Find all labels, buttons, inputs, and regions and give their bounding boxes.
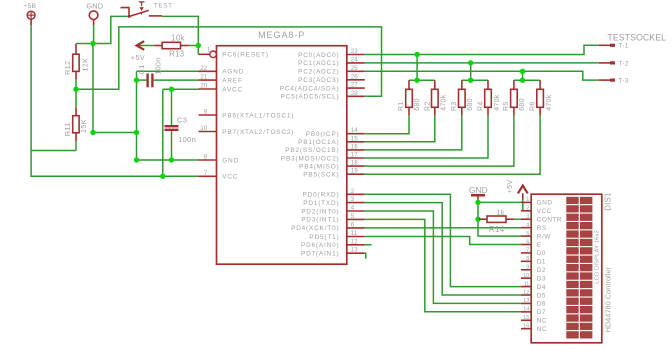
svg-text:8: 8: [204, 154, 208, 161]
pin 14 stub: [347, 133, 365, 135]
resistor R2 top lead: [434, 80, 436, 89]
wire R2 to pin 15: [365, 116, 435, 142]
pin 25 stub: [347, 70, 365, 72]
wire PC0 to T-1: [365, 45, 599, 54]
svg-text:+5V: +5V: [507, 180, 514, 194]
wire GND to LCD pin 1: [478, 201, 521, 203]
node ladder top 2: [468, 60, 473, 65]
svg-text:12K: 12K: [81, 58, 90, 72]
display pin 16 stub: [521, 328, 531, 330]
svg-text:20: 20: [200, 83, 207, 90]
svg-text:TESTSOCKEL: TESTSOCKEL: [607, 32, 666, 42]
svg-text:22: 22: [200, 65, 207, 72]
op-amp U1 MEGA8-P box: [217, 46, 347, 265]
wire R6 to pin 19: [365, 116, 540, 175]
svg-text:PC4(ADC4/SDA): PC4(ADC4/SDA): [280, 85, 340, 92]
svg-text:D0: D0: [537, 250, 546, 257]
svg-text:15: 15: [523, 315, 529, 321]
svg-text:R12: R12: [63, 61, 72, 75]
svg-text:470k: 470k: [441, 94, 448, 111]
wire divider tap to pin 28: [76, 27, 382, 96]
svg-text:7: 7: [204, 170, 208, 177]
wire R11 bottom to +5B line: [31, 150, 76, 152]
svg-text:9: 9: [204, 109, 208, 116]
svg-text:100n: 100n: [153, 57, 162, 74]
resistor R11 top lead: [75, 107, 77, 115]
display pin 13 stub: [521, 302, 531, 304]
wire AVCC pin 20: [163, 88, 199, 90]
svg-text:E: E: [537, 242, 542, 249]
resistor R1: [406, 89, 413, 107]
wire AVCC to VCC vertical: [162, 89, 164, 176]
node ladder bar 1: [414, 78, 419, 83]
svg-text:3: 3: [526, 214, 529, 220]
wire PD5 to E: [365, 237, 521, 245]
node divider tap: [73, 87, 78, 92]
svg-text:14: 14: [351, 127, 358, 134]
svg-text:PD1(TXD): PD1(TXD): [303, 200, 339, 207]
resistor R13 right lead: [181, 45, 189, 47]
resistor R3: [459, 89, 466, 107]
svg-text:12: 12: [523, 290, 529, 296]
svg-text:470k: 470k: [494, 94, 501, 111]
wire +5B down and along bottom: [31, 25, 163, 176]
wire GND to R12 top: [76, 43, 93, 45]
pin 9 stub: [199, 114, 217, 116]
pin 15 stub: [347, 141, 365, 143]
svg-text:PD6(AIN0): PD6(AIN0): [301, 242, 340, 249]
svg-text:T-2: T-2: [619, 60, 629, 67]
resistor R5 bottom lead: [513, 107, 515, 115]
svg-text:26: 26: [351, 73, 358, 80]
svg-text:R13: R13: [169, 50, 184, 59]
svg-text:PD7(AIN1): PD7(AIN1): [301, 251, 340, 258]
svg-text:R14: R14: [489, 225, 505, 234]
connector pin T-1: [599, 44, 615, 46]
svg-text:DIS1: DIS1: [604, 192, 613, 211]
resistor R2 bottom lead: [434, 107, 436, 115]
resistor R14 left lead: [479, 218, 487, 220]
svg-text:12: 12: [351, 238, 358, 245]
wire +5V to LCD pin 2: [521, 200, 523, 211]
svg-text:R2: R2: [424, 101, 431, 111]
svg-text:2: 2: [526, 206, 529, 212]
wire GND column to R/W: [478, 200, 521, 237]
wire R14 to CONTR: [514, 218, 521, 220]
svg-text:AGND: AGND: [222, 69, 244, 76]
svg-text:PB5(SCK): PB5(SCK): [303, 172, 339, 179]
svg-text:D1: D1: [537, 259, 546, 266]
pin 6 stub: [347, 227, 365, 229]
resistor R1 bottom lead: [408, 107, 410, 115]
svg-text:PC1(ADC1): PC1(ADC1): [298, 60, 339, 67]
svg-text:PC2(ADC2): PC2(ADC2): [298, 69, 339, 76]
svg-text:PD5(T1): PD5(T1): [309, 234, 339, 241]
svg-text:27: 27: [351, 82, 358, 89]
svg-text:R/W: R/W: [537, 233, 551, 240]
svg-text:2: 2: [351, 188, 355, 195]
display pin 5 stub: [521, 235, 531, 237]
resistor R12 top lead: [75, 44, 77, 55]
pin 11 stub: [347, 236, 365, 238]
pin 17 stub: [347, 157, 365, 159]
pin 19 stub: [347, 173, 365, 175]
supply +5V arrow left: [137, 41, 145, 50]
wire ladder drop 2: [470, 63, 472, 80]
svg-text:100n: 100n: [178, 135, 196, 144]
svg-text:R3: R3: [451, 101, 458, 111]
resistor R14: [487, 216, 506, 222]
wire R5 to pin 18: [365, 116, 514, 167]
node AVCC VCC join: [160, 174, 165, 179]
wire switch right to R13 node: [162, 16, 198, 45]
svg-text:T-1: T-1: [619, 43, 629, 50]
pin 7 stub: [199, 175, 217, 177]
svg-text:19: 19: [351, 168, 358, 175]
svg-text:13: 13: [351, 247, 358, 254]
wire R11 bottom lead extension: [75, 141, 77, 150]
pin 1 PC6(RESET) with bubble: [198, 51, 216, 58]
node AGND column join: [134, 130, 139, 135]
display pin 10 stub: [521, 277, 531, 279]
wire C3 top: [171, 89, 173, 125]
svg-text:25: 25: [351, 65, 358, 72]
svg-text:9: 9: [526, 265, 529, 271]
display pin 8 stub: [521, 260, 531, 262]
resistor R12: [73, 54, 79, 71]
switch S1 TEST: [121, 2, 163, 18]
svg-text:PB3(MOSI/OC2): PB3(MOSI/OC2): [281, 155, 340, 162]
wire PC2 to T-3: [365, 71, 599, 80]
svg-text:11: 11: [351, 230, 358, 237]
supply +5B: [27, 11, 35, 25]
wire ladder drop 3: [522, 71, 524, 80]
resistor R4 top lead: [487, 80, 489, 89]
svg-text:16: 16: [351, 143, 358, 150]
svg-text:1k: 1k: [497, 210, 505, 217]
display pin 2 stub: [521, 210, 531, 212]
svg-text:PD0(RXD): PD0(RXD): [303, 192, 340, 199]
wire GND junction to switch left: [93, 16, 129, 43]
wire node to pin 1: [197, 46, 199, 55]
wire ladder drop 1: [416, 55, 418, 81]
wire R12 bottom: [75, 80, 77, 90]
svg-text:PB7(XTAL2/TOSC2): PB7(XTAL2/TOSC2): [222, 129, 294, 136]
svg-text:13: 13: [523, 298, 529, 304]
svg-text:24: 24: [351, 56, 358, 63]
svg-text:6: 6: [526, 239, 529, 245]
node C1 left: [134, 77, 139, 82]
wire GND to C1 column: [93, 132, 137, 134]
node GND wire left: [134, 157, 139, 162]
node GND mid junction: [90, 130, 95, 135]
svg-text:GND: GND: [469, 185, 488, 195]
svg-text:PB6(XTAL1/TOSC1): PB6(XTAL1/TOSC1): [222, 112, 294, 119]
supply GND pad: [89, 11, 98, 25]
svg-text:5: 5: [526, 231, 529, 237]
display character cells: [566, 197, 592, 339]
svg-text:10: 10: [523, 273, 529, 279]
svg-text:10: 10: [200, 125, 207, 132]
svg-text:11: 11: [524, 281, 530, 287]
wire PD7 stub: [365, 253, 366, 259]
svg-text:PD4(XCK/T0): PD4(XCK/T0): [291, 225, 339, 232]
pin 22 stub: [199, 70, 217, 72]
svg-text:NC: NC: [537, 326, 547, 333]
svg-text:PC0(ADC0): PC0(ADC0): [298, 52, 339, 59]
wire R13 to node: [189, 45, 199, 47]
svg-text:C1: C1: [137, 64, 146, 74]
resistor R3 bottom lead: [461, 107, 463, 115]
wire PD2 to D6: [365, 211, 521, 303]
node RESET net: [196, 43, 201, 48]
wire +5V to R13: [138, 45, 154, 47]
node GND LCD pin1: [475, 200, 480, 205]
pin 10 stub: [199, 131, 217, 133]
wire ladder bar 1: [409, 79, 435, 81]
resistor R1 top lead: [408, 80, 410, 89]
resistor R5: [511, 89, 518, 107]
wire PD1 to D5: [365, 203, 521, 295]
display pin 6 stub: [521, 244, 531, 246]
svg-text:D7: D7: [537, 309, 546, 316]
svg-text:18: 18: [351, 160, 358, 167]
svg-text:680: 680: [414, 98, 421, 111]
svg-text:GND: GND: [537, 200, 553, 207]
svg-text:D3: D3: [537, 275, 546, 282]
pin 16 stub: [347, 149, 365, 151]
resistor R5 top lead: [513, 80, 515, 89]
svg-text:R1: R1: [398, 101, 405, 111]
pin 28 stub: [347, 95, 365, 97]
node ladder top 1: [414, 52, 419, 57]
display pin 4 stub: [521, 227, 531, 229]
svg-text:GND: GND: [86, 2, 103, 11]
node GND R14: [475, 217, 480, 222]
pin 13 stub: [347, 252, 365, 254]
supply +5V arrow near LCD: [518, 186, 528, 200]
wire C1 to pin 21 AREF: [154, 79, 199, 81]
resistor R4: [485, 89, 492, 107]
svg-text:8: 8: [526, 256, 529, 262]
pin 18 stub: [347, 165, 365, 167]
pin 12 stub: [347, 244, 365, 246]
pin 20 stub: [199, 88, 217, 90]
resistor R11 bottom lead: [75, 133, 77, 141]
svg-text:PB1(OC1A): PB1(OC1A): [298, 139, 339, 146]
svg-text:RS: RS: [537, 225, 547, 232]
display pin 3 stub: [521, 218, 531, 220]
wire to pin 22 AGND: [137, 70, 199, 72]
svg-text:R6: R6: [530, 101, 537, 111]
wire PD3 to D7: [365, 219, 521, 311]
resistor R6 bottom lead: [539, 107, 541, 115]
svg-text:R4: R4: [478, 101, 485, 111]
capacitor C1: [148, 74, 153, 88]
resistor R3 top lead: [461, 80, 463, 89]
wire R3 to pin 16: [365, 116, 462, 150]
svg-text:1: 1: [207, 47, 211, 54]
wire ladder bar 2: [462, 79, 488, 81]
svg-text:PC3(ADC3): PC3(ADC3): [298, 77, 339, 84]
connector pin T-3: [599, 79, 615, 81]
svg-text:1: 1: [526, 197, 529, 203]
ground symbol near LCD: [471, 195, 485, 199]
svg-text:5: 5: [351, 213, 355, 220]
pin 4 stub: [347, 210, 365, 212]
svg-text:D4: D4: [537, 284, 546, 291]
svg-text:14: 14: [523, 307, 529, 313]
wire GND to pin 8: [137, 159, 199, 161]
svg-text:+5B: +5B: [23, 3, 36, 10]
wire divider mid: [75, 89, 77, 107]
svg-text:D2: D2: [537, 267, 546, 274]
svg-text:4: 4: [526, 222, 529, 228]
wire R1 to pin 14: [365, 116, 409, 134]
svg-text:6: 6: [351, 221, 355, 228]
wire R4 to pin 17: [365, 116, 488, 158]
display pin 12 stub: [521, 294, 531, 296]
display pin 11 stub: [521, 286, 531, 288]
display pin 7 stub: [521, 252, 531, 254]
svg-text:HD44780 Controller: HD44780 Controller: [603, 266, 612, 332]
display DIS1 box: [531, 194, 602, 343]
svg-text:15K: 15K: [79, 119, 88, 133]
resistor R11: [73, 116, 79, 133]
svg-text:3: 3: [351, 196, 355, 203]
wire PD0 to D4: [365, 194, 521, 286]
node C3 top: [169, 87, 174, 92]
svg-text:GND: GND: [222, 157, 239, 164]
svg-text:17: 17: [351, 152, 358, 159]
wire C1 left lead: [137, 79, 147, 81]
node ladder top 3: [520, 69, 525, 74]
svg-text:D5: D5: [537, 292, 546, 299]
pin 2 stub: [347, 193, 365, 195]
svg-text:4: 4: [351, 205, 355, 212]
svg-text:NC: NC: [537, 318, 547, 325]
svg-text:AVCC: AVCC: [222, 86, 243, 93]
wire C3 bottom: [171, 131, 173, 160]
svg-text:+5V: +5V: [131, 53, 145, 62]
node C3 bottom: [169, 157, 174, 162]
pin 3 stub: [347, 202, 365, 204]
svg-text:TEST: TEST: [154, 2, 173, 9]
svg-text:PD3(INT1): PD3(INT1): [301, 217, 339, 224]
svg-text:680: 680: [467, 98, 474, 111]
wire GND vertical: [92, 44, 94, 133]
svg-text:470k: 470k: [546, 94, 553, 111]
svg-text:PB4(MISO): PB4(MISO): [299, 163, 339, 170]
svg-text:10k: 10k: [171, 33, 185, 42]
display pin 15 stub: [521, 319, 531, 321]
svg-text:28: 28: [351, 90, 358, 97]
svg-text:15: 15: [351, 135, 358, 142]
display pin 9 stub: [521, 269, 531, 271]
resistor R13: [162, 42, 180, 48]
wire AGND column vertical: [136, 71, 138, 160]
pin 26 stub: [347, 79, 365, 81]
svg-text:PB0(ICP): PB0(ICP): [306, 131, 340, 138]
node ladder bar 2: [468, 78, 473, 83]
svg-text:VCC: VCC: [222, 174, 238, 181]
svg-text:PB2(SS/OC1B): PB2(SS/OC1B): [285, 147, 339, 154]
wire GND symbol down: [93, 25, 95, 44]
resistor R12 bottom lead: [75, 71, 77, 79]
resistor R4 bottom lead: [487, 107, 489, 115]
resistor R2: [432, 89, 439, 107]
display pin 14 stub: [521, 311, 531, 313]
node GND top junction: [90, 41, 95, 46]
svg-text:7: 7: [526, 248, 529, 254]
resistor R13 left lead: [154, 45, 162, 47]
svg-text:C3: C3: [177, 116, 187, 125]
capacitor C3: [165, 126, 179, 130]
wire ladder bar 3: [514, 79, 540, 81]
svg-text:MEGA8-P: MEGA8-P: [258, 30, 305, 40]
pin 23 stub: [347, 54, 365, 56]
pin 24 stub: [347, 62, 365, 64]
wire PD6 stub: [365, 244, 372, 246]
resistor R14 right lead: [506, 218, 514, 220]
pin 8 stub: [199, 159, 217, 161]
pin 21 stub: [199, 79, 217, 81]
svg-text:PD2(INT0): PD2(INT0): [301, 208, 339, 215]
svg-text:D6: D6: [537, 301, 546, 308]
resistor R6: [537, 89, 544, 107]
display pin 1 stub: [521, 201, 531, 203]
svg-text:PC6(RESET): PC6(RESET): [222, 52, 268, 59]
wire PD4 to RS: [365, 227, 521, 229]
svg-text:PC5(ADC5/SCL): PC5(ADC5/SCL): [281, 94, 340, 101]
svg-text:R11: R11: [63, 122, 72, 136]
svg-text:LCD DISPLAY 16x2: LCD DISPLAY 16x2: [595, 230, 601, 284]
wire PC1 to T-2: [365, 62, 599, 64]
svg-text:R5: R5: [503, 101, 510, 111]
svg-text:16: 16: [523, 324, 529, 330]
pin 5 stub: [347, 218, 365, 220]
svg-text:T-3: T-3: [619, 78, 629, 85]
svg-text:CONTR: CONTR: [537, 217, 562, 224]
svg-text:AREF: AREF: [222, 77, 242, 84]
svg-text:680: 680: [519, 98, 526, 111]
node ladder bar 3: [520, 78, 525, 83]
connector pin T-2: [599, 62, 615, 64]
resistor R6 top lead: [539, 80, 541, 89]
svg-text:23: 23: [351, 48, 358, 55]
pin 27 stub: [347, 87, 365, 89]
svg-text:VCC: VCC: [537, 208, 552, 215]
wire VCC to pin 7: [163, 175, 199, 177]
svg-text:21: 21: [200, 74, 207, 81]
